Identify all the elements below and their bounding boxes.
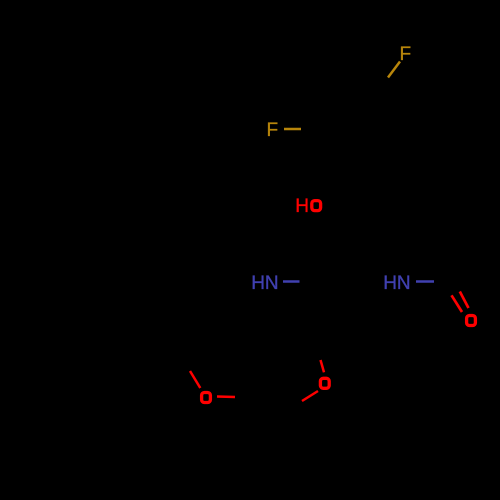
atom O3 ether left ring: [202, 393, 211, 403]
bond N1-C (secondary amine): [283, 280, 300, 282]
bond O3-C (left ether, right): [217, 395, 235, 398]
bond C=O2 double line a: [452, 295, 463, 312]
svg-text:F: F: [400, 44, 412, 65]
svg-text:HN: HN: [251, 273, 278, 294]
svg-text:HN: HN: [383, 273, 410, 294]
bond C=O2 double line b: [460, 292, 469, 309]
svg-text:H: H: [295, 196, 309, 217]
bond C-F1 (to top fluorine): [388, 62, 400, 78]
bond C-F2 (to left fluorine): [284, 128, 301, 130]
bond C-O4 (right ether, up): [321, 360, 325, 372]
bond O4-C (right ether, down-left): [302, 391, 318, 401]
bond N2-C (amide): [416, 280, 434, 282]
atom O1 hydroxyl HO : O ring: [312, 201, 321, 211]
atom O4 ether right ring: [320, 378, 329, 388]
atom O2 carbonyl ring: [467, 316, 476, 326]
bond C-O3 (left ether, up-left): [190, 371, 200, 388]
svg-text:F: F: [267, 120, 279, 141]
